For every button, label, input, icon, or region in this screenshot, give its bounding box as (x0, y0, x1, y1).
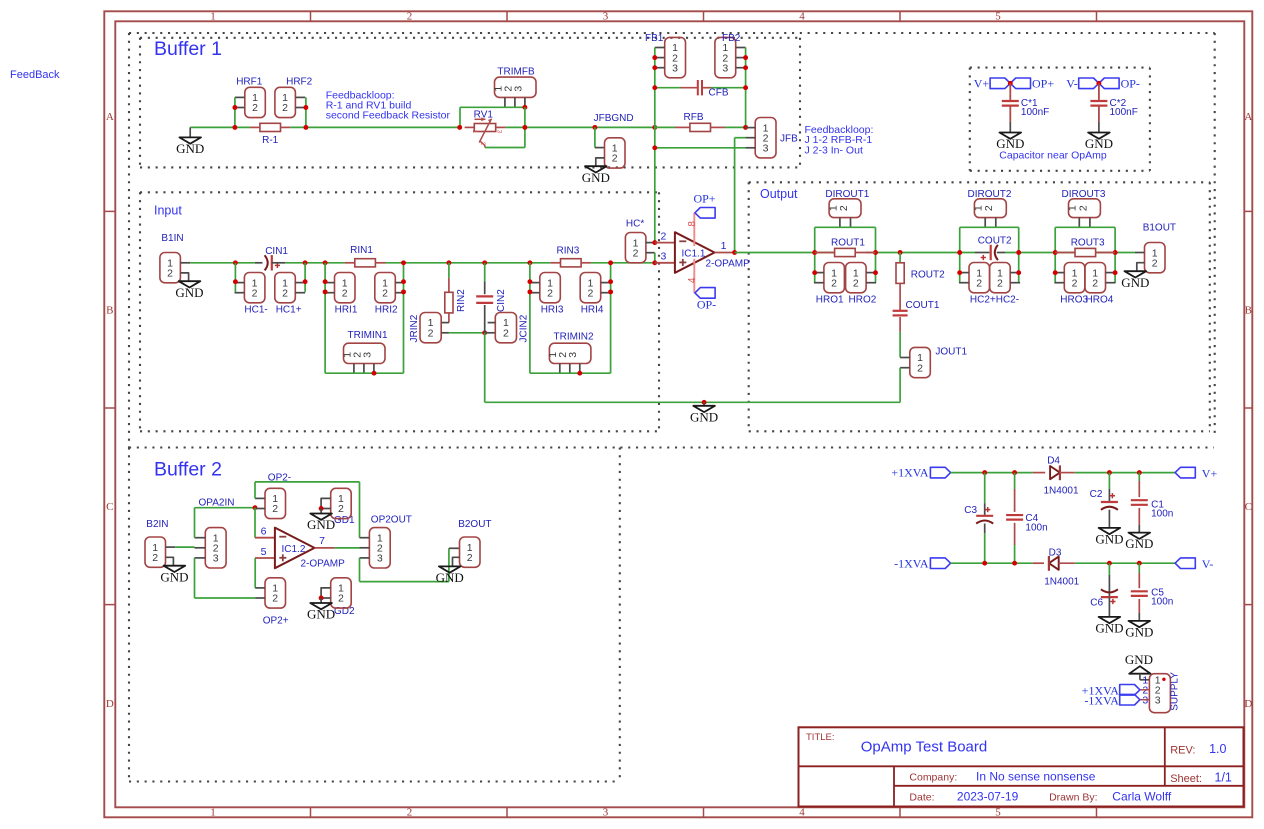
svg-text:IC1.1: IC1.1 (682, 249, 706, 260)
header HRO3 (1064, 263, 1085, 293)
wire HRF1 left column (234, 97, 236, 127)
capacitor CIN1 (polarized) (255, 262, 263, 264)
header OPA2IN connector (3-pin) (205, 528, 226, 568)
junction CIN2 bottom (482, 330, 487, 335)
svg-text:GD1: GD1 (334, 515, 355, 526)
junction C1 top (1137, 470, 1142, 475)
header HRI2 (375, 273, 396, 303)
resistor ROUT2 (vertical) (899, 253, 901, 263)
svg-text:Sheet:: Sheet: (1170, 773, 1202, 785)
svg-text:2: 2 (479, 142, 486, 146)
svg-text:GND: GND (307, 517, 335, 532)
svg-text:REV:: REV: (1170, 745, 1195, 757)
op-amp IC1.2 (255, 537, 275, 539)
svg-text:C6: C6 (1090, 598, 1103, 609)
svg-text:HRO2: HRO2 (849, 295, 877, 306)
svg-text:HC*: HC* (626, 219, 644, 230)
junction HRO1 pin1 (812, 270, 817, 275)
junction C3 bottom (982, 561, 987, 566)
junction JFB pin3 row left (652, 145, 657, 150)
junction HRF1 pin2 (232, 105, 237, 110)
junction TRIMFB column / feedback row (522, 125, 527, 130)
svg-text:100n: 100n (1151, 509, 1173, 520)
dashed box capacitor-near-opamp (970, 67, 1150, 69)
svg-text:5: 5 (261, 546, 267, 558)
svg-text:RIN1: RIN1 (350, 245, 373, 256)
wire SUPPLY pin2 stub (1140, 689, 1150, 691)
svg-text:2: 2 (831, 277, 837, 289)
svg-text:2: 2 (338, 593, 344, 605)
svg-text:HRF1: HRF1 (236, 76, 263, 87)
capacitor CIN2 (vertical) (484, 263, 486, 282)
svg-text:OpAmp Test Board: OpAmp Test Board (861, 739, 987, 756)
svg-text:A: A (1244, 111, 1252, 123)
svg-text:GND: GND (175, 285, 203, 300)
svg-text:2: 2 (661, 230, 667, 242)
svg-text:HRI1: HRI1 (335, 305, 358, 316)
svg-text:2-OPAMP: 2-OPAMP (301, 559, 346, 570)
svg-text:3: 3 (603, 807, 609, 819)
svg-text:GND: GND (582, 170, 610, 185)
junction CIN2 top (482, 260, 487, 265)
capacitor C1 (1138, 473, 1140, 481)
wire JCIN2 pin2 stub row (485, 332, 496, 334)
svg-text:2: 2 (587, 287, 593, 299)
svg-text:ROUT2: ROUT2 (911, 270, 945, 281)
svg-text:COUT2: COUT2 (978, 236, 1012, 247)
svg-text:2: 2 (152, 552, 158, 564)
header HC2- (990, 263, 1011, 293)
junction FB2 pin2 (743, 55, 748, 60)
junction ROUT1 left (812, 250, 817, 255)
net flag V+ (rail) (1175, 467, 1195, 478)
svg-text:C2: C2 (1090, 489, 1103, 500)
svg-text:100nF: 100nF (1021, 107, 1049, 118)
svg-text:-1XVA: -1XVA (1084, 693, 1119, 707)
svg-text:2: 2 (382, 287, 388, 299)
header JFB (755, 118, 776, 158)
junction HRI1 pin2 (323, 289, 328, 294)
junction CFB right (743, 85, 748, 90)
junction HRO3 pin1 (1053, 270, 1058, 275)
wire JFBGND drop (594, 127, 596, 147)
svg-text:CIN1: CIN1 (265, 246, 288, 257)
svg-text:B2IN: B2IN (146, 519, 168, 530)
svg-text:GND: GND (690, 409, 718, 424)
svg-text:1.0: 1.0 (1209, 742, 1226, 756)
svg-text:4: 4 (799, 807, 805, 819)
net flag V- (cap box) (1079, 78, 1099, 89)
frame column separators bottom (310, 807, 312, 817)
svg-text:GND: GND (1125, 652, 1153, 667)
wire V+ rail (951, 472, 1033, 474)
junction JFBGND (592, 125, 597, 130)
ground GND (B1IN) (180, 273, 188, 281)
svg-text:1: 1 (721, 240, 727, 252)
svg-text:D: D (106, 698, 114, 710)
svg-text:2: 2 (838, 205, 850, 211)
junction TRIMIN2 pin3 (577, 371, 582, 376)
svg-text:HC1+: HC1+ (276, 305, 302, 316)
svg-text:2: 2 (252, 102, 258, 114)
wire HRI4 column (610, 263, 612, 373)
junction HC2+ pin1 (957, 270, 962, 275)
header JFBGND connector (595, 147, 605, 149)
junction HRI2 pin2 (401, 289, 406, 294)
svg-text:FB2: FB2 (722, 33, 741, 44)
svg-text:3: 3 (1155, 694, 1161, 706)
svg-text:6: 6 (261, 526, 267, 538)
svg-text:HRI4: HRI4 (581, 305, 604, 316)
svg-text:JCIN2: JCIN2 (519, 314, 530, 342)
svg-text:OP+: OP+ (1032, 77, 1054, 91)
svg-text:3: 3 (377, 553, 383, 565)
ground GND (B2OUT) (453, 557, 460, 566)
svg-text:3: 3 (567, 352, 579, 358)
svg-text:3: 3 (512, 86, 524, 92)
title block dividers (799, 765, 1244, 767)
junction FB1 pin2 (652, 55, 657, 60)
svg-text:+1XVA: +1XVA (891, 465, 929, 479)
svg-text:GND: GND (1125, 536, 1153, 551)
ground GND (C2) (1099, 528, 1121, 534)
wire HRI3 column (529, 263, 531, 373)
svg-text:Input: Input (154, 204, 182, 218)
wire DIROUT1 loop (815, 226, 876, 228)
junction TRIMIN1 pin3 (372, 371, 377, 376)
svg-text:B: B (1245, 305, 1252, 317)
junction HRI4 top (608, 260, 613, 265)
resistor ROUT1 (815, 252, 834, 254)
header JCIN2 (495, 313, 516, 343)
svg-text:2: 2 (407, 11, 413, 23)
svg-text:2: 2 (342, 287, 348, 299)
op-amp IC1.2 output lead (315, 547, 335, 549)
svg-text:FeedBack: FeedBack (10, 69, 60, 81)
op-amp IC1.1 (655, 242, 675, 244)
svg-text:2: 2 (633, 247, 639, 259)
ground GND (B2IN) (166, 557, 174, 565)
svg-text:TRIMIN1: TRIMIN1 (348, 330, 388, 341)
svg-text:2: 2 (997, 277, 1003, 289)
svg-text:1N4001: 1N4001 (1044, 486, 1079, 497)
svg-text:8: 8 (687, 221, 698, 227)
wire FB2 right column (745, 48, 747, 128)
svg-text:1N4001: 1N4001 (1044, 577, 1079, 588)
ground GND1 (feedback row) (189, 127, 191, 137)
ground GND (JFBGND) (596, 158, 605, 166)
wire V- rail (951, 562, 1033, 564)
wire RV1 wiper to TRIMFB pin3 (485, 147, 525, 149)
junction opamp output (732, 250, 737, 255)
svg-text:100n: 100n (1025, 522, 1047, 533)
junction ROUT3 right (1113, 250, 1118, 255)
junction HC1- pin1 (233, 279, 238, 284)
wire HRI1 column (324, 263, 326, 373)
header HRI1 (335, 273, 356, 303)
svg-text:Company:: Company: (909, 772, 957, 784)
svg-text:3: 3 (722, 62, 728, 74)
svg-text:2: 2 (1152, 257, 1158, 269)
svg-text:HRO3: HRO3 (1060, 295, 1088, 306)
svg-text:C: C (106, 501, 113, 513)
header HRI4 (580, 273, 601, 303)
svg-text:3: 3 (495, 130, 502, 134)
svg-text:OP2+: OP2+ (263, 616, 289, 627)
svg-text:D: D (1244, 698, 1252, 710)
header HRO2 (846, 263, 867, 293)
svg-text:2: 2 (1072, 277, 1078, 289)
resistor RIN2 (vertical) (448, 263, 450, 278)
op-amp power stub V- (pin 4) (693, 259, 695, 293)
junction ROUT2 top (898, 250, 903, 255)
ground GND (C*1) (1009, 122, 1011, 133)
junction FB1 pin3 (652, 65, 657, 70)
svg-text:2023-07-19: 2023-07-19 (957, 790, 1019, 804)
frame row separators left (104, 210, 115, 212)
svg-text:OP-: OP- (697, 298, 716, 312)
junction HRI3 pin1 (527, 279, 532, 284)
svg-text:2: 2 (976, 277, 982, 289)
junction HRI3 pin2 (527, 289, 532, 294)
wire HC1+ column (304, 263, 306, 292)
svg-text:HRO4: HRO4 (1086, 295, 1114, 306)
svg-text:2: 2 (167, 267, 173, 279)
svg-text:3: 3 (763, 143, 769, 155)
junction HRI2 top (401, 260, 406, 265)
ground GND (C5) (1129, 621, 1151, 627)
svg-text:7: 7 (319, 535, 325, 547)
svg-text:RV1: RV1 (474, 110, 494, 121)
svg-text:Buffer 1: Buffer 1 (154, 38, 222, 60)
svg-text:B1OUT: B1OUT (1143, 223, 1176, 234)
junction GD1 gnd (319, 506, 324, 511)
svg-text:J 2-3 In- Out: J 2-3 In- Out (805, 145, 863, 157)
svg-text:CIN2: CIN2 (496, 289, 507, 312)
op-amp IC1.1 output lead (715, 252, 735, 254)
svg-text:TRIMFB: TRIMFB (497, 67, 535, 78)
svg-text:2: 2 (503, 327, 509, 339)
wire TRIMFB pin3 down to wiper row (524, 107, 526, 147)
junction HRI3 column top (527, 260, 532, 265)
wire HRI2 column (403, 263, 405, 373)
svg-text:Date:: Date: (909, 792, 934, 804)
svg-text:3: 3 (672, 62, 678, 74)
junction HRI2 pin1 (401, 279, 406, 284)
svg-text:R-1: R-1 (262, 135, 279, 146)
junction COUT2 right (1016, 250, 1021, 255)
capacitor C6 (polarized) (1108, 563, 1110, 575)
svg-text:HC1-: HC1- (244, 305, 267, 316)
net flag OP- (IC1.1) (695, 288, 715, 299)
junction GD2 gnd (319, 596, 324, 601)
svg-text:IC1.2: IC1.2 (282, 544, 306, 555)
junction ROUT3 left (1053, 250, 1058, 255)
net flag V- (rail) (1175, 558, 1195, 569)
svg-text:second Feedback Resistor: second Feedback Resistor (326, 109, 451, 121)
svg-text:-1XVA: -1XVA (894, 556, 929, 570)
junction HC1+ column (303, 260, 308, 265)
dashed outer group box (129, 32, 1215, 34)
junction opamp in- node (652, 240, 657, 245)
wire HC1- column (234, 263, 236, 292)
svg-text:FB1: FB1 (645, 33, 664, 44)
svg-text:100n: 100n (1151, 597, 1173, 608)
wire JFB pin3 row (655, 147, 746, 149)
svg-text:1: 1 (210, 11, 216, 23)
svg-text:ROUT1: ROUT1 (831, 238, 865, 249)
trimmer header TRIMFB (495, 77, 537, 97)
frame row separators right (1244, 210, 1252, 212)
junction RV1 left (457, 125, 462, 130)
svg-text:HC2+HC2-: HC2+HC2- (970, 295, 1019, 306)
frame column separators top (310, 11, 312, 21)
svg-text:2: 2 (282, 287, 288, 299)
capacitor COUT2 (polarized) (975, 252, 989, 254)
svg-text:C: C (1245, 501, 1252, 513)
capacitor C*2 (1098, 83, 1100, 100)
wire SUPPLY pin3 stub (1140, 699, 1150, 701)
junction HRI1 pin1 (323, 279, 328, 284)
svg-text:2: 2 (1077, 205, 1089, 211)
junction C6 top (1107, 561, 1112, 566)
header JRIN2 (420, 313, 441, 343)
svg-text:Output: Output (760, 187, 798, 201)
ground GND (bottom net) (703, 402, 705, 406)
svg-text:HRI2: HRI2 (375, 305, 398, 316)
svg-text:2: 2 (612, 152, 618, 164)
net flag OP+ (IC1.1) (695, 208, 715, 219)
svg-text:2: 2 (428, 327, 434, 339)
header HRO4 (1085, 263, 1106, 293)
svg-text:GND: GND (1095, 621, 1123, 636)
svg-text:B2OUT: B2OUT (458, 519, 491, 530)
ground GND (C6) (1099, 617, 1121, 623)
junction HRF2 pin2 (303, 105, 308, 110)
svg-text:GND: GND (160, 569, 188, 584)
wire HC* pin2 drop (654, 253, 656, 263)
capacitor C2 (polarized) (1108, 473, 1110, 489)
junction HRI4 pin1 (608, 279, 613, 284)
svg-text:4: 4 (687, 277, 698, 283)
junction HRF1 column / feedback row (232, 125, 237, 130)
wire input main row (190, 262, 255, 264)
resistor RIN3 (550, 262, 560, 264)
junction RIN2 column top (446, 260, 451, 265)
capacitor CFB (655, 87, 681, 89)
junction V+/OP+ (1008, 81, 1013, 86)
svg-text:2: 2 (407, 807, 413, 819)
svg-text:TITLE:: TITLE: (806, 732, 835, 743)
svg-text:2: 2 (547, 287, 553, 299)
svg-text:GND: GND (176, 141, 204, 156)
svg-text:2: 2 (983, 205, 995, 211)
wire TRIMIN2 bottom row (530, 372, 611, 374)
title block border (799, 727, 1244, 806)
potentiometer RV1 (465, 126, 475, 128)
junction COUT2 left (957, 250, 962, 255)
dashed box Buffer 2 (128, 448, 130, 782)
wire OPA2IN to IC1.2 pin6 (254, 508, 256, 538)
junction HRI4 pin2 (608, 289, 613, 294)
wire TRIMIN1 bottom row (325, 372, 403, 374)
svg-text:Drawn By:: Drawn By: (1049, 792, 1097, 804)
dashed box Buffer 1 (140, 37, 800, 39)
header SUPPLY (1140, 679, 1150, 681)
capacitor C3 (polarized) (984, 473, 986, 504)
svg-text:2: 2 (272, 503, 278, 515)
ground GND (GD2) (320, 598, 322, 603)
resistor RIN1 (345, 262, 355, 264)
header HC1- (244, 273, 265, 303)
wire header pin3 to OP2+ (194, 558, 196, 598)
svg-text:HRF2: HRF2 (286, 76, 313, 87)
svg-text:GND: GND (1125, 625, 1153, 640)
junction HRO4 pin1 (1113, 270, 1118, 275)
wire JFB pin2 to output net (735, 137, 746, 139)
wire IC1.2 pin5 to OP2+ (254, 558, 256, 588)
svg-text:RFB: RFB (684, 112, 704, 123)
ground GND (GD1) (320, 509, 322, 514)
wire FB1 left column (long vertical to opamp) (654, 48, 656, 243)
svg-text:2: 2 (467, 552, 473, 564)
net flag OP- (cap box) (1099, 78, 1119, 89)
junction RFB right (743, 125, 748, 130)
svg-text:Buffer 2: Buffer 2 (154, 459, 222, 481)
svg-text:4: 4 (799, 11, 805, 23)
resistor RFB (655, 126, 675, 128)
svg-text:Carla Wolff: Carla Wolff (1112, 790, 1172, 804)
svg-text:GND: GND (1121, 275, 1149, 290)
junction HRF2 column / feedback row (303, 125, 308, 130)
svg-text:CFB: CFB (709, 88, 729, 99)
svg-text:V+: V+ (974, 77, 990, 91)
junction CFB left (652, 85, 657, 90)
header HRF1 (245, 87, 265, 117)
wire OPA2IN net (194, 508, 196, 538)
svg-text:100nF: 100nF (1110, 107, 1138, 118)
wire DIROUT3 loop (1055, 226, 1115, 228)
header FB2 (715, 37, 736, 77)
svg-text:SUPPLY: SUPPLY (1170, 672, 1181, 711)
junction HC1- column (233, 260, 238, 265)
svg-text:OP+: OP+ (693, 192, 715, 206)
svg-text:JFBGND: JFBGND (594, 113, 634, 124)
junction HRO2 pin1 (873, 270, 878, 275)
svg-text:1/1: 1/1 (1215, 771, 1232, 785)
dashed box Output (749, 181, 1210, 183)
svg-text:RIN3: RIN3 (557, 246, 580, 257)
ground GND (B1OUT) (1137, 263, 1145, 272)
svg-text:V-: V- (1202, 557, 1214, 571)
header FB1 (665, 37, 686, 77)
wire IC1.2 output to OP2OUT (335, 547, 360, 549)
svg-text:3: 3 (361, 352, 373, 358)
svg-text:2-OPAMP: 2-OPAMP (706, 258, 751, 269)
svg-text:OP2OUT: OP2OUT (371, 515, 412, 526)
op-amp power stub V+ (pin 8) (693, 213, 695, 246)
header HRI3 (540, 273, 561, 303)
svg-text:A: A (106, 111, 114, 123)
svg-text:B: B (106, 305, 113, 317)
wire OP2- pin1 top loop (254, 482, 256, 499)
header HC1+ (275, 273, 296, 303)
capacitor COUT1 (893, 310, 908, 312)
svg-text:In No sense nonsense: In No sense nonsense (976, 770, 1096, 784)
dashed box Input (140, 191, 659, 193)
resistor R-1 (250, 126, 260, 128)
svg-text:1: 1 (210, 807, 216, 819)
